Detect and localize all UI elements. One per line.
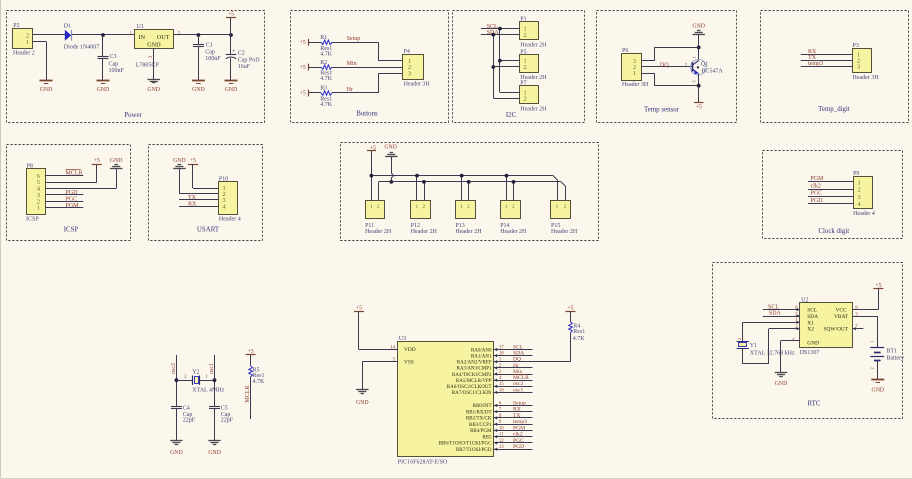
svg-text:RA3/AN3/CMP1: RA3/AN3/CMP1 [456, 367, 492, 372]
svg-text:GND: GND [807, 341, 819, 347]
svg-text:clk2: clk2 [811, 183, 821, 189]
svg-text:Min: Min [513, 369, 523, 375]
svg-text:RB5: RB5 [482, 435, 492, 440]
svg-text:GND: GND [170, 450, 183, 456]
svg-text:PGM: PGM [811, 176, 825, 182]
svg-text:GND: GND [192, 87, 205, 93]
svg-text:Header 2H: Header 2H [365, 229, 392, 235]
svg-text:22pF: 22pF [221, 418, 234, 424]
svg-text:RX: RX [808, 49, 817, 55]
svg-text:osc2: osc2 [513, 381, 523, 387]
svg-text:Battery: Battery [886, 355, 904, 361]
svg-text:R1: R1 [320, 35, 327, 41]
svg-text:Header 2H: Header 2H [500, 229, 527, 235]
svg-text:RB6/T1OSO/T1CKI/PGC: RB6/T1OSO/T1CKI/PGC [439, 442, 492, 447]
svg-text:C4: C4 [183, 405, 190, 411]
svg-text:10: 10 [499, 426, 504, 431]
svg-text:DQ: DQ [660, 62, 669, 68]
svg-text:P1: P1 [520, 17, 526, 23]
svg-text:P5: P5 [520, 49, 526, 55]
svg-text:VBAT: VBAT [834, 314, 849, 320]
svg-text:1: 1 [26, 39, 29, 46]
svg-text:Header 2H: Header 2H [411, 229, 438, 235]
svg-text:GND: GND [147, 87, 160, 93]
svg-text:VSS: VSS [404, 359, 414, 365]
svg-text:+5: +5 [94, 158, 100, 164]
svg-text:osc2: osc2 [171, 363, 177, 374]
svg-text:P6: P6 [622, 48, 628, 54]
svg-text:DS1307: DS1307 [800, 350, 820, 356]
svg-text:GND: GND [40, 87, 53, 93]
svg-text:PGC: PGC [513, 438, 524, 444]
svg-text:SCL: SCL [807, 308, 817, 314]
svg-text:GND: GND [208, 450, 221, 456]
svg-text:SDA: SDA [769, 311, 782, 317]
svg-text:MCLR: MCLR [245, 385, 251, 402]
svg-text:VDD: VDD [404, 347, 416, 353]
svg-text:RA1/AN1: RA1/AN1 [471, 354, 492, 359]
svg-text:GND: GND [225, 87, 238, 93]
svg-text:BT1: BT1 [886, 349, 897, 355]
svg-text:3: 3 [858, 194, 861, 201]
svg-text:Header 2H: Header 2H [520, 106, 547, 112]
svg-text:PGD: PGD [513, 444, 524, 450]
svg-text:U1: U1 [137, 24, 144, 30]
svg-text:4.7K: 4.7K [320, 102, 333, 108]
svg-text:+5: +5 [567, 306, 573, 312]
svg-text:PGC: PGC [66, 197, 78, 203]
svg-text:RA4/T0CKI/CMP2: RA4/T0CKI/CMP2 [452, 373, 492, 378]
svg-text:clk2: clk2 [513, 432, 523, 438]
svg-text:+5: +5 [875, 283, 881, 289]
svg-text:+5: +5 [300, 65, 306, 71]
svg-text:GND: GND [692, 24, 705, 30]
svg-text:+5: +5 [190, 158, 196, 164]
svg-text:+5: +5 [228, 12, 234, 18]
svg-text:RA2/AN2/VREF: RA2/AN2/VREF [457, 361, 492, 366]
svg-text:4.7K: 4.7K [573, 336, 586, 342]
svg-text:22pF: 22pF [183, 418, 196, 424]
svg-text:Temp_digit: Temp_digit [818, 106, 850, 113]
svg-text:RTC: RTC [808, 401, 821, 408]
svg-text:P2: P2 [13, 23, 19, 29]
svg-text:PIC16F628AT-E/SO: PIC16F628AT-E/SO [398, 459, 448, 465]
svg-text:U2: U2 [801, 298, 808, 304]
svg-text:Cap: Cap [109, 61, 119, 67]
svg-text:Header 4: Header 4 [219, 217, 241, 223]
svg-text:4.7K: 4.7K [253, 379, 266, 385]
svg-text:11: 11 [499, 433, 504, 438]
svg-text:RX: RX [513, 407, 521, 413]
svg-text:15: 15 [499, 382, 504, 387]
svg-text:3: 3 [692, 80, 697, 82]
svg-text:C1: C1 [206, 42, 213, 48]
svg-text:I2C: I2C [506, 112, 517, 119]
svg-text:3: 3 [408, 71, 411, 78]
svg-text:Header 2H: Header 2H [551, 229, 578, 235]
svg-text:R3: R3 [320, 86, 327, 92]
svg-text:PGD: PGD [66, 190, 79, 196]
svg-text:GND: GND [356, 400, 369, 406]
svg-text:ICSP: ICSP [26, 217, 39, 223]
svg-text:C3: C3 [110, 54, 117, 60]
svg-text:2: 2 [869, 367, 874, 369]
svg-text:16uF: 16uF [238, 64, 251, 70]
svg-text:IN: IN [139, 34, 146, 41]
svg-text:P8: P8 [27, 164, 33, 170]
svg-text:P4: P4 [404, 49, 410, 55]
svg-text:Setup: Setup [347, 36, 361, 42]
svg-text:1: 1 [692, 56, 697, 58]
svg-text:2: 2 [524, 64, 527, 71]
svg-text:MCLR: MCLR [513, 375, 529, 381]
svg-text:TX: TX [513, 413, 520, 419]
svg-text:SDA: SDA [513, 351, 524, 357]
svg-text:100nF: 100nF [109, 68, 125, 74]
svg-text:RA6/OSC2/CLKOUT: RA6/OSC2/CLKOUT [447, 385, 492, 390]
svg-text:RB0/INT: RB0/INT [473, 404, 492, 409]
svg-text:MCLR: MCLR [66, 170, 83, 176]
svg-text:OUT: OUT [157, 34, 170, 41]
svg-text:Setup: Setup [513, 400, 526, 406]
svg-text:SDA: SDA [807, 314, 818, 320]
svg-text:SCL: SCL [513, 344, 524, 350]
svg-text:+5: +5 [300, 40, 306, 46]
svg-text:USART: USART [197, 227, 220, 234]
svg-text:RB2/TX/CK: RB2/TX/CK [466, 417, 492, 422]
svg-text:2: 2 [524, 95, 527, 102]
svg-text:SCL: SCL [768, 304, 779, 310]
svg-text:GND: GND [97, 87, 110, 93]
svg-text:Header 2: Header 2 [13, 51, 35, 57]
svg-text:2: 2 [858, 187, 861, 194]
svg-text:+5: +5 [300, 91, 306, 97]
svg-text:Header 2H: Header 2H [520, 42, 547, 48]
svg-text:Hr: Hr [513, 363, 519, 369]
svg-text:RA7/OSC1/CLKIN: RA7/OSC1/CLKIN [452, 391, 492, 396]
svg-text:1: 1 [869, 340, 874, 342]
svg-text:1: 1 [633, 70, 636, 77]
svg-text:+: + [232, 48, 236, 55]
svg-text:Y2: Y2 [192, 369, 199, 375]
svg-text:+5: +5 [248, 349, 254, 355]
svg-text:PGM: PGM [513, 425, 525, 431]
svg-text:RB3/CCP1: RB3/CCP1 [469, 423, 492, 428]
svg-text:TX: TX [188, 195, 197, 201]
svg-text:Power: Power [124, 112, 142, 119]
svg-text:X1: X1 [807, 320, 814, 326]
svg-text:PGC: PGC [811, 191, 823, 197]
svg-text:Header 4: Header 4 [853, 211, 875, 217]
svg-text:GND: GND [872, 387, 885, 393]
svg-text:Header 2H: Header 2H [455, 229, 482, 235]
svg-text:14: 14 [390, 345, 395, 350]
svg-text:P7: P7 [520, 81, 526, 87]
svg-text:16: 16 [499, 388, 504, 393]
svg-text:Header 3H: Header 3H [622, 82, 649, 88]
svg-text:osc1: osc1 [513, 387, 523, 393]
svg-text:PGM: PGM [66, 203, 80, 209]
svg-text:Res1: Res1 [253, 373, 265, 379]
svg-text:PGD: PGD [811, 198, 824, 204]
svg-text:Temp sensor: Temp sensor [644, 107, 680, 114]
svg-text:U3: U3 [399, 336, 406, 342]
svg-text:X2: X2 [807, 327, 814, 333]
svg-text:GND: GND [384, 145, 397, 151]
svg-text:L7805CP: L7805CP [136, 63, 160, 69]
svg-text:RB4/PGM: RB4/PGM [470, 429, 492, 434]
svg-text:C5: C5 [221, 405, 228, 411]
svg-text:Min: Min [347, 61, 357, 67]
svg-text:SQW/OUT: SQW/OUT [824, 327, 849, 333]
svg-text:+5: +5 [696, 105, 702, 111]
svg-text:RA0/AN0: RA0/AN0 [471, 348, 492, 353]
svg-text:Clock digit: Clock digit [818, 228, 849, 235]
svg-text:18: 18 [499, 352, 504, 357]
svg-text:Header 3H: Header 3H [853, 75, 880, 81]
svg-text:Diode 1N4007: Diode 1N4007 [64, 44, 100, 50]
svg-text:XTAL 4MHz: XTAL 4MHz [192, 388, 224, 394]
svg-text:XTAL 32.768 kHz: XTAL 32.768 kHz [750, 351, 795, 357]
svg-text:Cap: Cap [205, 49, 215, 55]
svg-text:4.7K: 4.7K [320, 51, 333, 57]
svg-text:R2: R2 [320, 60, 327, 66]
svg-text:RB1/RX/DT: RB1/RX/DT [466, 410, 492, 415]
svg-text:2: 2 [524, 32, 527, 39]
svg-text:+5: +5 [356, 306, 362, 312]
svg-text:osc1: osc1 [209, 363, 215, 374]
svg-text:GND: GND [110, 158, 123, 164]
svg-text:Header 3H: Header 3H [404, 82, 431, 88]
svg-text:P3: P3 [853, 43, 859, 49]
svg-text:RA5/MCLR/VPP: RA5/MCLR/VPP [456, 379, 492, 384]
svg-text:GND: GND [173, 158, 186, 164]
svg-text:Y1: Y1 [750, 343, 757, 349]
svg-text:12: 12 [499, 439, 504, 444]
svg-text:17: 17 [499, 345, 504, 350]
svg-text:13: 13 [499, 445, 504, 450]
svg-text:Res1: Res1 [573, 329, 585, 335]
svg-text:temp3: temp3 [513, 419, 527, 425]
svg-text:100nF: 100nF [205, 56, 221, 62]
svg-text:P10: P10 [219, 176, 228, 182]
svg-text:RX: RX [188, 202, 197, 208]
svg-text:1: 1 [37, 205, 40, 212]
svg-text:Cap PoD: Cap PoD [238, 57, 261, 63]
svg-text:VCC: VCC [836, 308, 847, 314]
svg-text:D1: D1 [64, 24, 71, 30]
svg-text:BC547A: BC547A [701, 69, 723, 75]
svg-text:C2: C2 [238, 51, 245, 57]
svg-text:Buttons: Buttons [356, 111, 378, 118]
svg-text:4.7K: 4.7K [320, 76, 333, 82]
svg-text:P9: P9 [853, 171, 859, 177]
svg-text:2: 2 [737, 338, 742, 340]
svg-text:3: 3 [857, 63, 860, 70]
svg-text:GND: GND [147, 42, 161, 49]
svg-text:ICSP: ICSP [64, 226, 79, 233]
svg-text:temp3: temp3 [808, 61, 823, 67]
svg-text:1: 1 [858, 179, 861, 186]
svg-text:GND: GND [775, 381, 788, 387]
svg-text:RB7/T1OSI/PGD: RB7/T1OSI/PGD [456, 448, 492, 453]
svg-text:Q1: Q1 [701, 61, 708, 67]
